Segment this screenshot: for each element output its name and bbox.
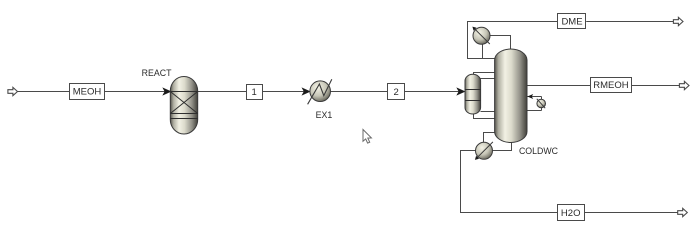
svg-text:DME: DME [561, 16, 582, 27]
svg-text:REACT: REACT [142, 68, 172, 78]
svg-text:MEOH: MEOH [73, 87, 102, 98]
svg-text:EX1: EX1 [316, 110, 333, 120]
svg-text:COLDWC: COLDWC [519, 146, 559, 156]
svg-text:1: 1 [252, 87, 257, 98]
svg-text:H2O: H2O [561, 208, 581, 219]
svg-text:2: 2 [394, 87, 399, 98]
svg-text:RMEOH: RMEOH [593, 80, 629, 91]
